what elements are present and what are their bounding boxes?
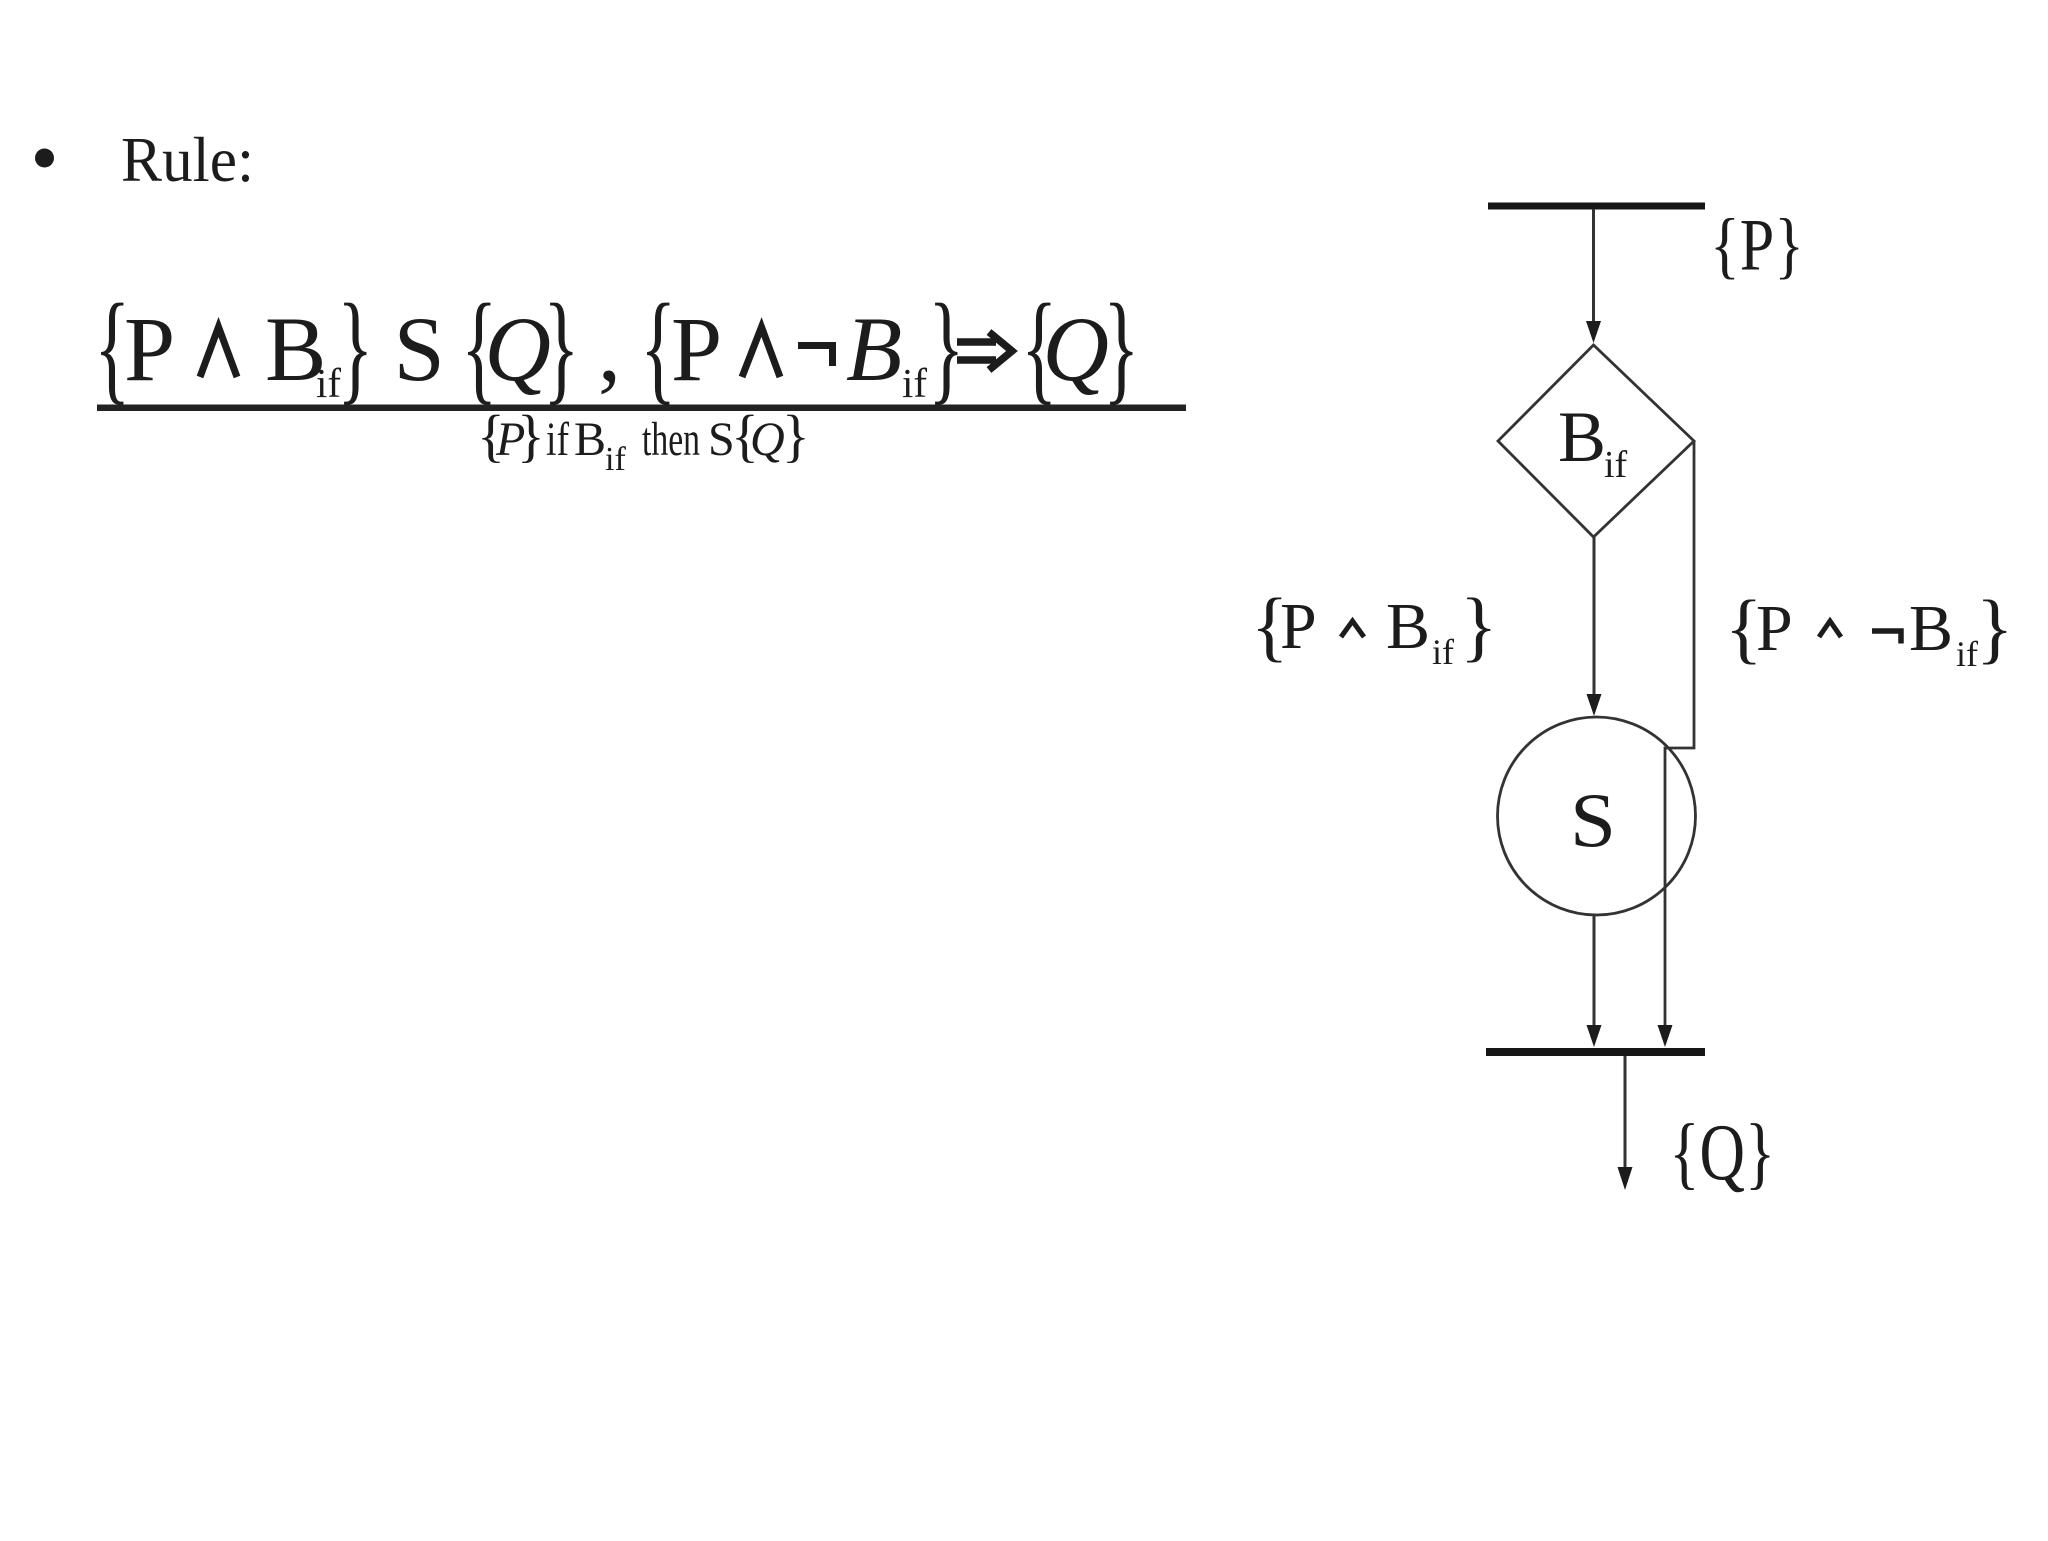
decision diamond B_if: [1498, 345, 1694, 537]
wire: bypass false branch: [1665, 441, 1694, 1033]
svg-text:then: then: [642, 413, 700, 466]
numerator: NOT sign: [798, 346, 833, 367]
svg-text:Rule:: Rule:: [121, 124, 254, 195]
arrowhead into diamond: [1586, 321, 1601, 343]
bullet: [35, 149, 54, 168]
flowchart: top entry bar: [1488, 203, 1705, 210]
svg-text:if: if: [1956, 634, 1978, 674]
svg-text:B: B: [846, 298, 902, 400]
svg-text:if: if: [605, 441, 626, 478]
arrowhead into circle: [1587, 694, 1602, 716]
svg-text:P: P: [1756, 592, 1793, 665]
svg-text:{P}: {P}: [1710, 205, 1804, 287]
svg-text:S: S: [394, 298, 445, 400]
svg-text:P: P: [124, 298, 175, 400]
arrowhead exit tail: [1618, 1167, 1633, 1190]
label {P AND B_if} true branch: [1251, 582, 1497, 672]
svg-text:P: P: [671, 298, 722, 400]
svg-text:}: }: [782, 403, 810, 468]
wire: entry to diamond: [1592, 209, 1595, 324]
svg-text:Q: Q: [485, 298, 551, 400]
svg-text:}: }: [543, 278, 579, 415]
wire: diamond to circle: [1593, 537, 1596, 697]
svg-text:}: }: [517, 403, 545, 468]
svg-text:}: }: [1976, 584, 2013, 671]
svg-text:if: if: [1604, 444, 1628, 486]
svg-text:B: B: [1909, 592, 1953, 665]
arrowhead circle-exit into bar: [1587, 1025, 1602, 1047]
svg-text:B: B: [1386, 590, 1430, 663]
svg-text:,: ,: [598, 298, 621, 400]
svg-text:if: if: [1432, 632, 1454, 672]
label {P AND NOT B_if} false branch: [1725, 584, 2013, 674]
numerator: wedge AND 2: [742, 327, 780, 377]
svg-text:if: if: [902, 360, 927, 406]
arrowhead bypass into exit bar: [1658, 1025, 1673, 1047]
svg-text:{Q}: {Q}: [1669, 1109, 1775, 1197]
svg-text:}: }: [928, 278, 964, 415]
process circle S: [1498, 717, 1696, 915]
svg-text:Q: Q: [750, 413, 785, 466]
svg-text:if: if: [546, 413, 569, 466]
fraction bar: [97, 405, 1186, 412]
svg-text:S: S: [1570, 777, 1616, 863]
numerator: double arrow implies: [957, 332, 1012, 370]
wire: exit tail: [1624, 1056, 1627, 1170]
svg-text:}: }: [1103, 278, 1139, 415]
wire: circle to exit bar: [1593, 915, 1596, 1033]
svg-text:P: P: [1280, 590, 1317, 663]
numerator: wedge AND 1: [200, 327, 237, 377]
svg-text:}: }: [1460, 582, 1497, 669]
svg-text:B: B: [1558, 397, 1606, 477]
svg-text:B: B: [574, 413, 606, 466]
svg-text:}: }: [337, 278, 373, 415]
svg-text:Q: Q: [1043, 298, 1109, 400]
flowchart: bottom exit bar: [1486, 1048, 1705, 1056]
